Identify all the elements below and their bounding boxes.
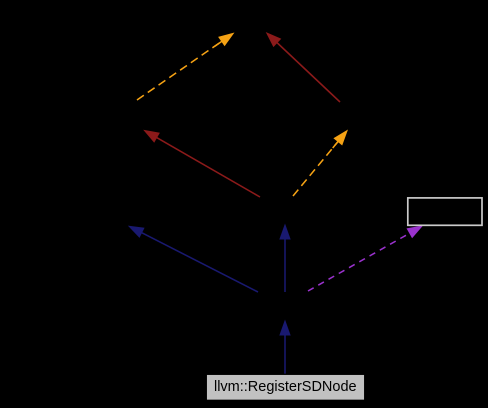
- svg-text:llvm::ilist_node_base: llvm::ilist_node_base: [189, 12, 312, 27]
- edge orange1: template relation B to A (dashed orange arrow): [137, 33, 235, 101]
- node F: llvm::SDNode (invisible): [240, 292, 330, 320]
- svg-text:Reg: Reg: [368, 256, 392, 271]
- svg-text:Register: Register: [420, 204, 470, 219]
- node A: llvm::ilist_node_base (top, black on transparent, invisible): [178, 5, 324, 33]
- edge purple: usage Reg from F to node R (dashed dark orchid arrow): [308, 225, 423, 291]
- svg-text:llvm::ilist_node: llvm::ilist_node: [306, 109, 393, 124]
- edge red1: private inheritance C to B (solid dark red arrow): [143, 130, 260, 197]
- node B: llvm::ilist_node_impl (row 2 left, invisible): [57, 100, 190, 131]
- node R: Register (undocumented class, grey border, transparent fill): [408, 198, 482, 225]
- node G: llvm::RegisterSDNode (current class, grey fill, black border): [206, 374, 364, 400]
- svg-text:llvm::RegisterSDNode: llvm::RegisterSDNode: [214, 379, 357, 395]
- edge blueL: public inheritance F to E (solid midnight blue arrow): [128, 226, 258, 292]
- node C: llvm::ilist_node< llvm::SDNode > (row 3 mid, invisible): [237, 196, 333, 223]
- node E: llvm::FoldingSetBase::Node (row 3 left, invisible): [60, 199, 200, 227]
- edge blue2: public inheritance RegisterSDNode to F (solid midnight blue arrow): [279, 320, 290, 375]
- node D: llvm::ilist_node template (row 2 right, invisible): [300, 102, 400, 130]
- svg-text:llvm::FoldingSet::Node: llvm::FoldingSet::Node: [63, 205, 197, 220]
- edge red2: private inheritance D to A (solid dark red arrow): [266, 32, 340, 102]
- svg-text:llvm::ilist_node_impl: llvm::ilist_node_impl: [64, 107, 183, 122]
- svg-text:llvm::SDNode: llvm::SDNode: [244, 298, 325, 313]
- edge blue1: public inheritance F to C (solid midnight blue arrow): [279, 224, 290, 293]
- svg-text:llvm::ilist_node: llvm::ilist_node: [241, 202, 328, 217]
- edge orange2: template relation C to D (dashed orange arrow): [293, 130, 348, 197]
